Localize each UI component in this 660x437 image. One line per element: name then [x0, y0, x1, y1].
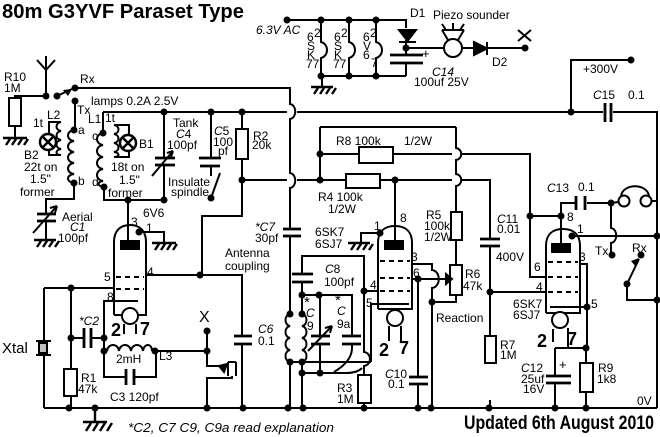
svg-text:6: 6 [413, 266, 420, 280]
svg-text:16V: 16V [523, 382, 544, 396]
svg-text:5: 5 [366, 296, 373, 310]
svg-text:3: 3 [579, 250, 586, 264]
svg-text:18t on: 18t on [111, 160, 144, 174]
svg-text:3: 3 [131, 215, 138, 229]
svg-text:C15: C15 [593, 88, 615, 102]
svg-text:6V6: 6V6 [143, 206, 165, 220]
svg-text:400V: 400V [496, 250, 524, 264]
svg-text:7: 7 [371, 56, 378, 70]
svg-text:D2: D2 [492, 55, 508, 69]
svg-text:7: 7 [567, 329, 577, 349]
svg-text:2mH: 2mH [116, 352, 141, 366]
svg-text:9a: 9a [337, 317, 351, 331]
svg-text:0V: 0V [637, 394, 652, 408]
svg-text:*C2, C7 C9, C9a read explanati: *C2, C7 C9, C9a read explanation [128, 420, 334, 435]
svg-text:Antenna: Antenna [225, 246, 270, 260]
svg-text:Xtal: Xtal [2, 340, 28, 357]
svg-text:8: 8 [107, 290, 114, 304]
svg-text:7: 7 [140, 319, 150, 339]
svg-text:4: 4 [536, 280, 543, 294]
svg-text:1: 1 [577, 222, 584, 236]
svg-text:2: 2 [111, 320, 121, 340]
svg-text:0.1: 0.1 [578, 180, 595, 194]
svg-text:6SJ7: 6SJ7 [315, 237, 343, 251]
svg-text:1: 1 [146, 221, 153, 235]
svg-text:L1: L1 [88, 112, 102, 126]
svg-text:2: 2 [341, 26, 348, 40]
svg-text:1/2W: 1/2W [424, 230, 453, 244]
svg-text:1.5": 1.5" [119, 173, 140, 187]
svg-text:6: 6 [363, 48, 370, 62]
svg-text:0.1: 0.1 [388, 377, 405, 391]
svg-text:80m G3YVF Paraset Type: 80m G3YVF Paraset Type [2, 0, 244, 23]
svg-text:+: + [559, 357, 567, 372]
svg-text:1t: 1t [105, 111, 116, 125]
svg-text:5: 5 [591, 297, 598, 311]
svg-text:1: 1 [374, 219, 381, 233]
svg-text:Rx: Rx [80, 72, 95, 86]
svg-text:lamps 0.2A 2.5V: lamps 0.2A 2.5V [91, 94, 178, 108]
svg-text:d: d [92, 175, 99, 189]
svg-text:2: 2 [379, 340, 389, 360]
svg-text:+300V: +300V [583, 62, 618, 76]
svg-text:1t: 1t [33, 116, 44, 130]
svg-text:3: 3 [411, 250, 418, 264]
svg-text:20k: 20k [252, 138, 272, 152]
svg-text:4: 4 [370, 278, 377, 292]
svg-text:Updated 6th August 2010: Updated 6th August 2010 [464, 413, 654, 434]
svg-text:1M: 1M [4, 81, 21, 95]
svg-text:C3 120pf: C3 120pf [110, 390, 159, 404]
svg-text:100pf: 100pf [324, 275, 355, 289]
svg-text:*C2: *C2 [79, 314, 99, 328]
svg-text:C: C [337, 304, 346, 318]
svg-text:spindle: spindle [171, 185, 209, 199]
svg-text:C: C [306, 306, 315, 320]
svg-text:1/2W: 1/2W [404, 134, 433, 148]
svg-text:1.5": 1.5" [30, 172, 51, 186]
svg-text:2: 2 [314, 26, 321, 40]
svg-text:6.3V AC: 6.3V AC [256, 23, 301, 37]
svg-text:30pf: 30pf [255, 231, 279, 245]
svg-text:0.1: 0.1 [258, 334, 275, 348]
svg-text:5: 5 [104, 270, 111, 284]
svg-text:6: 6 [534, 260, 541, 274]
svg-text:100pf: 100pf [58, 231, 89, 245]
svg-text:4: 4 [147, 265, 154, 279]
svg-text:0.1: 0.1 [628, 88, 645, 102]
svg-text:6SJ7: 6SJ7 [513, 308, 541, 322]
svg-text:Tx: Tx [595, 244, 608, 258]
svg-text:+: + [422, 46, 430, 61]
svg-text:Rx: Rx [632, 241, 647, 255]
svg-text:D1: D1 [410, 6, 426, 20]
svg-text:coupling: coupling [225, 259, 270, 273]
svg-text:b: b [78, 174, 85, 188]
svg-text:former: former [20, 185, 55, 199]
svg-text:Piezo sounder: Piezo sounder [433, 8, 510, 22]
svg-text:1M: 1M [337, 392, 354, 406]
svg-text:1M: 1M [500, 348, 517, 362]
svg-text:L2: L2 [47, 108, 61, 122]
svg-text:77: 77 [333, 57, 347, 71]
svg-text:2: 2 [537, 331, 547, 351]
svg-text:2: 2 [370, 26, 377, 40]
svg-text:47k: 47k [78, 382, 98, 396]
svg-text:a: a [78, 123, 85, 137]
svg-text:L3: L3 [159, 349, 173, 363]
svg-text:8: 8 [567, 210, 574, 224]
svg-text:100pf: 100pf [167, 138, 198, 152]
svg-text:pf: pf [218, 144, 229, 158]
svg-text:1/2W: 1/2W [328, 202, 357, 216]
svg-text:c: c [92, 129, 98, 143]
svg-text:X: X [199, 309, 210, 326]
svg-text:former: former [108, 186, 143, 200]
svg-text:0.01: 0.01 [497, 222, 521, 236]
svg-text:1k8: 1k8 [597, 372, 617, 386]
svg-text:C8: C8 [325, 262, 341, 276]
svg-text:C13: C13 [547, 181, 569, 195]
svg-text:B1: B1 [139, 137, 154, 151]
svg-text:R8 100k: R8 100k [336, 134, 382, 148]
svg-text:7: 7 [399, 338, 409, 358]
svg-text:100uf 25V: 100uf 25V [414, 75, 469, 89]
svg-text:8: 8 [400, 211, 407, 225]
svg-text:47k: 47k [463, 279, 483, 293]
svg-text:77: 77 [306, 57, 320, 71]
svg-text:9: 9 [307, 319, 314, 333]
svg-text:Reaction: Reaction [436, 311, 483, 325]
